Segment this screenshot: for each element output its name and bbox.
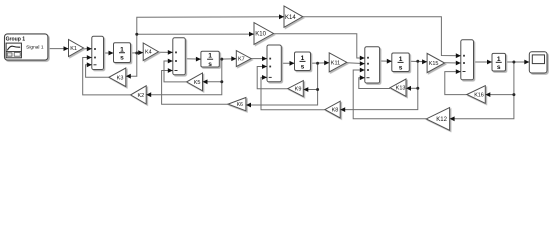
wire branch to K9: [303, 89, 317, 91]
arrow into K11: [324, 60, 329, 65]
wire I1 branch up to K14: [137, 17, 284, 53]
wire S2 to I2: [185, 58, 201, 60]
sum block S1: [92, 36, 104, 69]
svg-text:1: 1: [301, 55, 305, 62]
svg-text:K11: K11: [331, 60, 340, 66]
wire I5 branch down to K12: [450, 62, 514, 119]
junction feeding K16: [512, 93, 515, 96]
gain K4: [143, 43, 158, 61]
sum block S3: [267, 45, 281, 82]
svg-text:K12: K12: [436, 117, 447, 123]
arrow into Scope: [524, 60, 529, 65]
wire K7 to S3 port1: [251, 58, 267, 60]
wire K15 to S5 port2: [445, 62, 461, 64]
arrow into I3: [290, 61, 295, 66]
svg-text:s: s: [120, 55, 124, 62]
svg-text:K14: K14: [285, 15, 296, 21]
svg-text:1: 1: [208, 53, 212, 60]
source block Group 1 (Signal Builder): [5, 34, 48, 60]
wire I3 to K11: [311, 62, 330, 64]
svg-text:K2: K2: [138, 93, 145, 99]
wire K12 to S4 port3: [353, 70, 426, 119]
svg-text:1: 1: [120, 46, 124, 53]
wire K9 to S3 port2: [257, 67, 288, 89]
arrow into K7: [231, 56, 236, 61]
gain K7: [236, 51, 251, 67]
arrow into K13: [406, 86, 411, 91]
junction at I4 output: [416, 60, 419, 63]
wire S4 to I4: [380, 60, 392, 62]
wire K16 to S5 port3: [445, 72, 467, 95]
arrow into I2: [196, 57, 201, 62]
arrow into K2: [146, 92, 151, 97]
wire K3 to S1 port3: [86, 65, 109, 78]
wire K4 to S2 port1: [158, 51, 172, 53]
arrow into S4 port4: [360, 75, 365, 80]
svg-text:1: 1: [497, 56, 501, 63]
arrow into K3: [126, 74, 131, 79]
scope block: [529, 52, 547, 73]
gain K10: [254, 23, 274, 45]
wire K5 to S2 port2: [164, 61, 187, 82]
wire K2 to S1 port2: [83, 58, 131, 95]
gain K11: [329, 53, 347, 72]
arrow into S1 port1: [87, 46, 92, 51]
arrow into S5 port1: [456, 53, 461, 58]
arrow into S2 port1: [168, 50, 173, 55]
svg-text:K10: K10: [255, 32, 266, 38]
integrator I3 (1/s): [295, 52, 311, 71]
wire K8 to S3 port3: [261, 77, 325, 109]
wire S3 to I3: [281, 62, 294, 64]
svg-text:1: 1: [399, 56, 403, 63]
wire I1 branch down to K3: [126, 53, 137, 76]
junction at I3 output: [316, 62, 319, 65]
svg-text:s: s: [208, 61, 212, 68]
arrow into K16: [485, 92, 490, 97]
wire S1 to I1: [104, 52, 114, 54]
arrow into S3 port1: [262, 56, 267, 61]
svg-text:K3: K3: [117, 75, 124, 81]
wire I1 to K4: [131, 52, 144, 54]
junction on vertical to K10 rail: [135, 33, 138, 36]
wire K1 to S1 port1: [84, 48, 92, 50]
svg-text:K5: K5: [194, 80, 201, 86]
arrow into S5 port2: [456, 61, 461, 66]
arrow into K9: [303, 87, 308, 92]
wire K11 to S4 port2: [347, 62, 365, 65]
svg-text:K8: K8: [332, 108, 339, 114]
wire I3 branch down to K6: [246, 63, 318, 105]
arrow into S4 port1: [360, 56, 365, 61]
junction feeding K5: [220, 80, 223, 83]
arrow into K4: [138, 50, 143, 55]
arrow into S4 port2: [360, 61, 365, 66]
gain K14: [284, 6, 303, 27]
wire I4 branch down to K8: [340, 61, 418, 109]
arrow into S2 port2: [168, 59, 173, 64]
arrow into K5: [203, 79, 208, 84]
wire I2 to K7: [219, 58, 236, 60]
svg-text:Signal 1: Signal 1: [26, 45, 44, 51]
gain K3: [109, 68, 126, 87]
wire Signal1 to K1: [48, 48, 69, 50]
arrow into S3 port2: [262, 64, 267, 69]
arrow into S2 port3: [168, 68, 173, 73]
wire branch to K10: [137, 33, 254, 35]
gain K13: [390, 79, 406, 96]
gain K2: [131, 86, 147, 104]
arrow into I1: [109, 51, 114, 56]
wire branch to K13: [406, 87, 418, 89]
wire branch to K5: [203, 81, 222, 83]
svg-text:K16: K16: [474, 92, 484, 98]
integrator I4 (1/s): [392, 53, 410, 72]
gain K16: [467, 86, 486, 104]
wire K13 to S4 port4: [359, 78, 390, 89]
gain K12: [426, 108, 449, 131]
gain K6: [228, 98, 246, 111]
svg-text:Group 1: Group 1: [6, 37, 26, 43]
gain K8: [325, 101, 340, 118]
junction feeding K13: [416, 87, 419, 90]
wire K14 to S5 port1: [303, 17, 461, 56]
arrow into I5: [487, 60, 492, 65]
integrator I5 (1/s): [492, 53, 506, 71]
arrow into I4: [387, 59, 392, 64]
svg-text:K6: K6: [237, 102, 243, 108]
svg-text:s: s: [399, 64, 403, 71]
junction at I2 output: [220, 58, 223, 61]
sum block S5: [461, 40, 474, 80]
arrow into K14: [279, 14, 284, 19]
arrow into S3 port3: [262, 75, 267, 80]
svg-text:K1: K1: [70, 46, 77, 52]
integrator I1 (1/s): [114, 43, 131, 63]
sum block S4: [365, 47, 380, 83]
wire S5 to I5: [474, 61, 493, 63]
arrow into S4 port3: [360, 68, 365, 73]
junction at I1 output: [135, 52, 138, 55]
svg-text:K7: K7: [238, 57, 245, 63]
arrow into K6: [246, 103, 251, 108]
arrow into K12: [450, 116, 455, 121]
arrow into S5 port3: [456, 69, 461, 74]
wire branch to K16: [485, 94, 514, 96]
wire K10 to S4 port1: [274, 34, 365, 58]
arrow into S1 port2: [87, 55, 92, 60]
svg-text:K15: K15: [429, 61, 439, 67]
svg-text:K9: K9: [295, 87, 302, 93]
svg-text:s: s: [301, 63, 305, 70]
wire I4 to K15: [409, 60, 427, 63]
svg-text:K13: K13: [396, 86, 406, 92]
gain K9: [288, 81, 304, 97]
integrator I2 (1/s): [201, 51, 219, 68]
arrow into K8: [340, 107, 345, 112]
svg-text:s: s: [497, 64, 501, 71]
svg-text:K4: K4: [145, 50, 152, 56]
wire I5 to Scope: [506, 61, 530, 63]
wire I2 branch down to K2: [146, 59, 222, 95]
junction at I5 output: [512, 61, 515, 64]
arrow into K1: [64, 46, 69, 51]
gain K15: [427, 53, 445, 72]
wire K6 to S2 port3: [162, 71, 228, 105]
arrow into K10: [249, 32, 254, 37]
gain K1: [69, 40, 84, 57]
sum block S2: [173, 38, 186, 75]
arrow into S1 port3: [87, 62, 92, 67]
arrow into K15: [422, 59, 427, 64]
gain K5: [187, 73, 203, 91]
junction feeding K9: [316, 88, 319, 91]
